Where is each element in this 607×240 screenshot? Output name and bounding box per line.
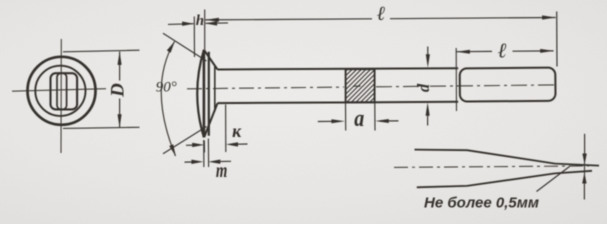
dimension m left arrow xyxy=(191,160,203,164)
dimension L line right segment xyxy=(390,18,556,19)
dimension l right arrow xyxy=(540,49,554,53)
dimension d top arrow shaft xyxy=(427,47,429,61)
90 deg arc top arrow xyxy=(167,41,175,53)
dimension L line left segment xyxy=(205,19,372,20)
dimension D top arrow xyxy=(118,51,122,65)
shank top edge xyxy=(218,68,459,69)
head cone bottom edge xyxy=(204,103,217,137)
dimension L right arrow xyxy=(542,15,556,19)
dimension k left arrow shaft xyxy=(186,144,199,146)
dimension h right arrow xyxy=(205,21,217,25)
dimension l left arrow xyxy=(456,50,470,54)
right end extension line xyxy=(556,12,558,67)
dimension m right arrow xyxy=(208,160,220,164)
dimension l line right segment xyxy=(513,50,554,52)
threaded end rounded outline xyxy=(460,68,556,102)
left view head inner circle xyxy=(35,66,85,116)
left view horizontal centerline xyxy=(12,89,106,92)
dimension m right extension line xyxy=(207,139,209,168)
90 deg top angle line xyxy=(163,33,207,61)
dimension D line lower segment xyxy=(119,99,121,128)
dimension L left arrow xyxy=(205,18,219,22)
main view centerline right part xyxy=(376,85,556,87)
dimension d bottom arrow shaft xyxy=(427,111,429,126)
dimension k left arrow xyxy=(192,143,204,147)
dimension k right extension line xyxy=(225,105,227,153)
head cone top edge xyxy=(204,50,217,69)
detail top profile line xyxy=(415,150,600,166)
left view vertical centerline xyxy=(60,39,62,153)
dimension h left arrow xyxy=(182,22,194,26)
dimension l line left segment xyxy=(456,50,492,52)
head face arc xyxy=(197,50,204,137)
detail gap up arrow xyxy=(582,173,586,184)
head face chord line xyxy=(203,50,206,138)
dimension h right arrow shaft xyxy=(206,22,228,24)
dimension D line upper segment xyxy=(119,52,121,81)
dimension l extension line xyxy=(455,48,457,111)
dimension a left arrow shaft xyxy=(318,120,340,122)
detail gap down arrow shaft xyxy=(584,134,586,154)
90 deg arc bottom arrow xyxy=(169,144,176,156)
dimension D bottom extension line xyxy=(63,127,140,128)
shank bottom edge xyxy=(218,102,459,103)
detail gap down arrow xyxy=(582,154,586,165)
hatched cross-section a xyxy=(346,69,375,102)
main view centerline dash inside section xyxy=(353,85,361,87)
head band edge line xyxy=(208,52,210,136)
dimension h left extension line xyxy=(193,17,195,58)
dimension a right arrow shaft xyxy=(380,120,399,122)
left view center slot xyxy=(57,73,67,109)
detail bottom profile line xyxy=(417,171,592,188)
dimension D bottom arrow xyxy=(118,114,122,128)
90 deg bottom angle line xyxy=(163,127,207,154)
left view square neck outline xyxy=(51,73,78,109)
dimension m left extension line xyxy=(203,140,205,167)
dimension a left extension line xyxy=(345,103,347,131)
dimension k right arrow xyxy=(226,142,238,146)
square neck edge line xyxy=(214,67,216,112)
dimension d top arrow xyxy=(426,54,430,67)
dimension k right arrow shaft xyxy=(231,143,248,145)
detail gap tick line xyxy=(584,154,586,182)
90 deg dimension arc xyxy=(161,42,175,157)
dimension a right extension line xyxy=(374,103,376,131)
dimension a right arrow xyxy=(375,119,389,123)
dimension h left arrow shaft xyxy=(168,23,194,26)
dimension m right arrow shaft xyxy=(214,160,231,162)
main view centerline left part xyxy=(187,87,344,89)
dimension D top extension line xyxy=(63,50,140,52)
dimension k left extension line xyxy=(203,141,205,153)
detail centerline xyxy=(394,166,589,168)
detail leader line xyxy=(537,167,570,192)
dimension h right extension line xyxy=(204,10,206,50)
detail gap up arrow shaft xyxy=(583,183,585,200)
dimension a left arrow xyxy=(331,119,345,123)
dimension d bottom arrow xyxy=(426,102,430,116)
left view head outer circle xyxy=(28,57,96,125)
dimension m left arrow shaft xyxy=(185,161,198,163)
